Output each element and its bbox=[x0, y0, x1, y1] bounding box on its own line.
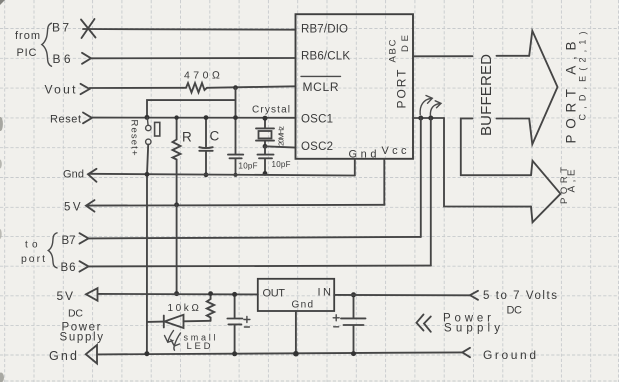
svg-text:to: to bbox=[25, 240, 38, 251]
junction button gnd bbox=[145, 172, 150, 177]
arrow Reset bbox=[83, 113, 92, 124]
arrow 5to7V bbox=[470, 291, 478, 300]
svg-text:Reset+: Reset+ bbox=[129, 120, 140, 156]
arrow Ground bbox=[462, 348, 470, 357]
svg-text:C: C bbox=[210, 129, 220, 144]
wire reset button branch bbox=[147, 100, 235, 117]
junction crystal bottom / OSC2 bbox=[263, 144, 268, 149]
IC U1 box bbox=[296, 14, 414, 159]
svg-text:Vout: Vout bbox=[45, 83, 77, 97]
wire IC right tap bbox=[413, 117, 444, 119]
junction 10pF-right bottom bbox=[263, 171, 268, 176]
arrow B6 to port bbox=[80, 261, 89, 271]
edge smudge left mid bbox=[0, 117, 3, 131]
svg-text:5V: 5V bbox=[57, 289, 74, 303]
junction C bottom on gnd bbox=[204, 172, 209, 177]
capacitor C4 left electrolytic bbox=[227, 294, 242, 353]
svg-text:PORT A,B: PORT A,B bbox=[564, 42, 579, 144]
arrow Gnd top rail bbox=[88, 169, 97, 182]
svg-text:C,D,E(2,1): C,D,E(2,1) bbox=[578, 32, 588, 121]
wire regulator IN bbox=[334, 294, 470, 296]
wire resistor to MCLR bbox=[207, 86, 296, 88]
LED D1 bbox=[147, 315, 211, 328]
svg-text:20MHz: 20MHz bbox=[277, 126, 286, 146]
junction gnd: C4 bbox=[232, 351, 237, 356]
wire regulator gnd pin bbox=[295, 311, 297, 354]
resistor R bbox=[173, 118, 181, 205]
svg-text:5V: 5V bbox=[64, 202, 81, 214]
svg-text:OSC1: OSC1 bbox=[301, 114, 333, 126]
svg-text:port: port bbox=[21, 253, 45, 265]
arrow B7 to port bbox=[80, 233, 89, 243]
svg-text:Gnd: Gnd bbox=[49, 349, 77, 363]
svg-text:DC: DC bbox=[507, 305, 523, 317]
svg-text:Reset: Reset bbox=[50, 114, 81, 126]
wire MCLR tap vertical bbox=[235, 88, 237, 118]
capacitor 10pF right bbox=[258, 146, 274, 173]
wire IC Vcc pin bbox=[383, 159, 385, 205]
svg-text:10pF: 10pF bbox=[239, 162, 258, 171]
svg-text:10pF: 10pF bbox=[272, 160, 291, 169]
svg-text:Supply: Supply bbox=[60, 332, 104, 344]
wire to-port B6 vertical bbox=[430, 118, 432, 266]
wire port A,E lower tap bbox=[444, 118, 531, 207]
curved arrow 2 bbox=[430, 101, 441, 116]
svg-text:R: R bbox=[182, 130, 192, 145]
wire OSC2 bbox=[265, 146, 296, 147]
double chevron power supply bbox=[417, 315, 431, 332]
voltage regulator U2 bbox=[258, 279, 334, 311]
junction tap B7 bbox=[418, 116, 423, 121]
capacitor C bbox=[199, 118, 212, 175]
resistor 10k bbox=[207, 294, 214, 321]
X mark on B7 line bbox=[81, 19, 96, 38]
svg-text:from: from bbox=[15, 30, 40, 42]
junction R top bbox=[174, 115, 178, 119]
wire to-port B6 horizontal bbox=[89, 265, 431, 268]
svg-text:PIC: PIC bbox=[17, 47, 37, 59]
junction C5 top bbox=[351, 292, 356, 297]
capacitor C5 right electrolytic bbox=[341, 295, 366, 354]
wire ground rail bottom bbox=[98, 352, 463, 354]
svg-text:Gnd: Gnd bbox=[63, 169, 84, 181]
junction gnd: button vertical bbox=[144, 351, 149, 356]
svg-text:LED: LED bbox=[187, 341, 211, 352]
wire B7 to RB7/DIO bbox=[83, 28, 296, 31]
junction crystal top / OSC1 bbox=[263, 116, 268, 121]
resistor 470ohm bbox=[183, 83, 207, 93]
junction gnd: C5 bbox=[351, 351, 356, 356]
wire Vout to resistor bbox=[90, 87, 184, 89]
junction 10k top bbox=[208, 291, 213, 296]
wire 5V rail bbox=[87, 204, 385, 207]
junction 10pF-left bottom bbox=[234, 173, 238, 177]
capacitor 10pF left bbox=[228, 118, 243, 175]
label from PIC bbox=[15, 30, 40, 59]
junction C4 top bbox=[232, 292, 237, 297]
pushbutton Reset bbox=[146, 117, 160, 144]
wire Reset / OSC1 line bbox=[92, 117, 296, 119]
svg-text:ABC: ABC bbox=[388, 39, 399, 62]
edge smudge left lower bbox=[0, 229, 2, 239]
svg-text:Gnd: Gnd bbox=[349, 149, 377, 161]
svg-text:B6: B6 bbox=[61, 262, 76, 274]
edge smudge left low bbox=[0, 160, 2, 169]
svg-text:BUFFERED: BUFFERED bbox=[478, 54, 495, 136]
arrow Vout bbox=[81, 84, 90, 94]
label to port bbox=[21, 240, 45, 266]
label + C4 bbox=[244, 317, 250, 328]
svg-text:A,E: A,E bbox=[567, 169, 578, 192]
wire 5V link vertical bbox=[176, 205, 178, 294]
svg-text:Crystal: Crystal bbox=[252, 105, 290, 116]
block arrow PORT A,B,C,D,E bbox=[529, 31, 557, 145]
wire 5V DC rail bbox=[98, 293, 258, 296]
svg-text:OUT: OUT bbox=[263, 288, 286, 300]
brace to port bbox=[48, 233, 57, 268]
brace from PIC bbox=[42, 23, 52, 66]
arrow Gnd bottom (open triangle) bbox=[86, 345, 97, 364]
junction MCLR tap bbox=[233, 85, 238, 90]
LED emission arrows bbox=[165, 331, 181, 351]
edge smudge top-left bbox=[0, 0, 5, 5]
label small LED bbox=[184, 333, 216, 353]
wire B6 to RB6/CLK bbox=[91, 57, 296, 59]
block arrow PORT A,E bbox=[531, 161, 561, 223]
crystal X1 bbox=[256, 118, 274, 146]
junction gnd: regulator bbox=[293, 351, 299, 357]
svg-text:5 to 7 Volts: 5 to 7 Volts bbox=[483, 290, 557, 302]
junction R bottom on 5V bbox=[174, 202, 179, 207]
label + C5 bbox=[333, 315, 339, 327]
svg-text:10kΩ: 10kΩ bbox=[168, 303, 200, 314]
arrow 5V DC (open triangle) bbox=[86, 288, 98, 301]
svg-text:B7: B7 bbox=[62, 235, 76, 247]
wire Gnd rail top bbox=[89, 174, 355, 176]
svg-text:Gnd: Gnd bbox=[292, 300, 314, 311]
svg-text:OSC2: OSC2 bbox=[301, 141, 333, 153]
svg-text:IN: IN bbox=[318, 287, 332, 299]
wire button to bottom gnd vertical bbox=[147, 145, 148, 175]
junction C top bbox=[204, 115, 209, 120]
junction button top bbox=[145, 115, 150, 120]
svg-text:RB6/CLK: RB6/CLK bbox=[301, 51, 350, 63]
svg-text:Vcc: Vcc bbox=[382, 145, 408, 157]
arrow 5V top rail bbox=[86, 200, 95, 212]
svg-text:DC: DC bbox=[68, 308, 83, 320]
wire IC Gnd pin bbox=[354, 159, 356, 176]
wire to-port B7 vertical bbox=[420, 118, 422, 237]
svg-text:MCLR: MCLR bbox=[303, 80, 339, 94]
buffered block outline bbox=[461, 118, 531, 175]
edge smudge bottom-left bbox=[0, 373, 4, 382]
pin label MCLR with overline bbox=[301, 76, 341, 94]
wire buffered top (IC to arrow) bbox=[413, 55, 529, 58]
svg-text:470Ω: 470Ω bbox=[184, 70, 220, 82]
wire to-port B7 horizontal bbox=[89, 237, 421, 239]
junction 10pF-left top bbox=[233, 115, 238, 120]
curved arrow 1 bbox=[420, 96, 432, 115]
junction tap B6 bbox=[428, 116, 433, 121]
junction 5V link bottom bbox=[174, 291, 179, 296]
svg-text:RB7/DIO: RB7/DIO bbox=[301, 24, 348, 36]
arrow B6 bbox=[82, 53, 91, 64]
